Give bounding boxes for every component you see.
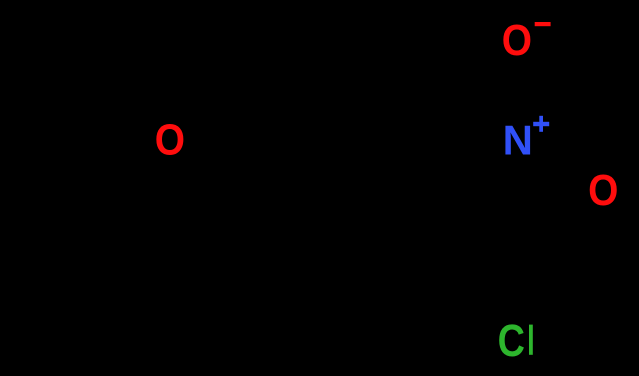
svg-text:N: N	[503, 117, 533, 164]
svg-text:C: C	[498, 315, 525, 366]
svg-text:O: O	[588, 165, 618, 215]
ring double bond C1-C2	[418, 198, 424, 278]
charge plus on N: horizontal bar	[533, 122, 549, 126]
bond C4-O(methoxy)	[190, 150, 257, 188]
benzene ring	[257, 138, 431, 338]
bond C2-N	[431, 147, 502, 188]
ring double bond C3-C4	[270, 150, 344, 193]
bond C1-Cl	[431, 288, 496, 328]
bond N=O double	[535, 152, 588, 183]
charge minus on top O	[535, 22, 551, 26]
chlorine Cl : letter l	[529, 325, 533, 355]
bond N-O(minus)	[514, 60, 520, 118]
bond O-CH3 methyl	[84, 151, 152, 190]
charge plus on N: vertical bar	[539, 116, 543, 132]
svg-text:O: O	[502, 15, 532, 65]
svg-text:O: O	[155, 114, 185, 164]
ring double bond C5-C6	[267, 283, 341, 326]
